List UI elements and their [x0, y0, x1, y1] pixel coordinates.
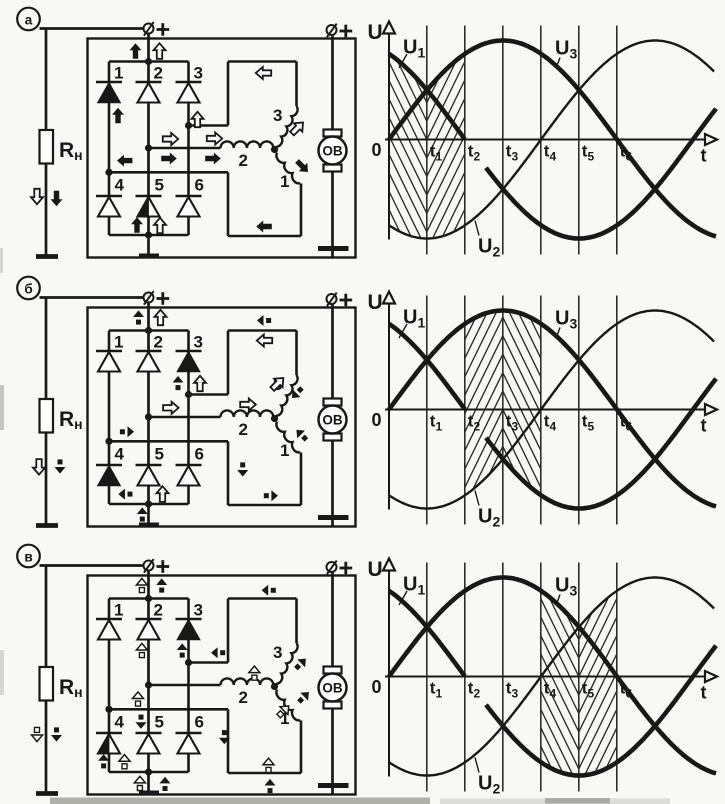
- svg-text:U: U: [368, 558, 383, 581]
- svg-text:ОВ: ОВ: [322, 144, 343, 159]
- svg-text:U: U: [368, 291, 383, 314]
- svg-text:t: t: [701, 146, 707, 166]
- svg-text:1: 1: [114, 601, 123, 620]
- svg-text:0: 0: [372, 140, 382, 160]
- svg-text:4: 4: [115, 713, 125, 732]
- svg-text:2: 2: [239, 420, 248, 439]
- svg-text:1: 1: [114, 333, 123, 352]
- svg-text:2: 2: [154, 601, 163, 620]
- svg-text:0: 0: [372, 677, 382, 697]
- svg-text:2: 2: [239, 688, 248, 707]
- svg-text:ОВ: ОВ: [322, 413, 343, 428]
- svg-text:0: 0: [372, 410, 382, 430]
- svg-text:ОВ: ОВ: [322, 681, 343, 696]
- svg-text:t: t: [701, 416, 707, 436]
- svg-text:5: 5: [155, 713, 164, 732]
- svg-text:1: 1: [280, 172, 289, 191]
- svg-text:3: 3: [194, 333, 203, 352]
- svg-text:3: 3: [194, 601, 203, 620]
- svg-text:б: б: [24, 282, 32, 297]
- svg-text:t: t: [701, 683, 707, 703]
- svg-text:3: 3: [194, 64, 203, 83]
- svg-text:2: 2: [239, 151, 248, 170]
- svg-text:1: 1: [280, 441, 289, 460]
- svg-text:2: 2: [154, 64, 163, 83]
- svg-text:U: U: [368, 21, 383, 44]
- svg-text:6: 6: [195, 445, 204, 464]
- svg-text:6: 6: [195, 176, 204, 195]
- svg-text:в: в: [24, 550, 32, 565]
- svg-text:5: 5: [155, 176, 164, 195]
- svg-text:4: 4: [115, 176, 125, 195]
- svg-text:4: 4: [115, 445, 125, 464]
- svg-text:3: 3: [273, 106, 282, 125]
- svg-text:1: 1: [114, 64, 123, 83]
- svg-text:3: 3: [273, 643, 282, 662]
- svg-text:а: а: [25, 13, 33, 28]
- svg-text:2: 2: [154, 333, 163, 352]
- svg-text:5: 5: [155, 445, 164, 464]
- svg-text:6: 6: [195, 713, 204, 732]
